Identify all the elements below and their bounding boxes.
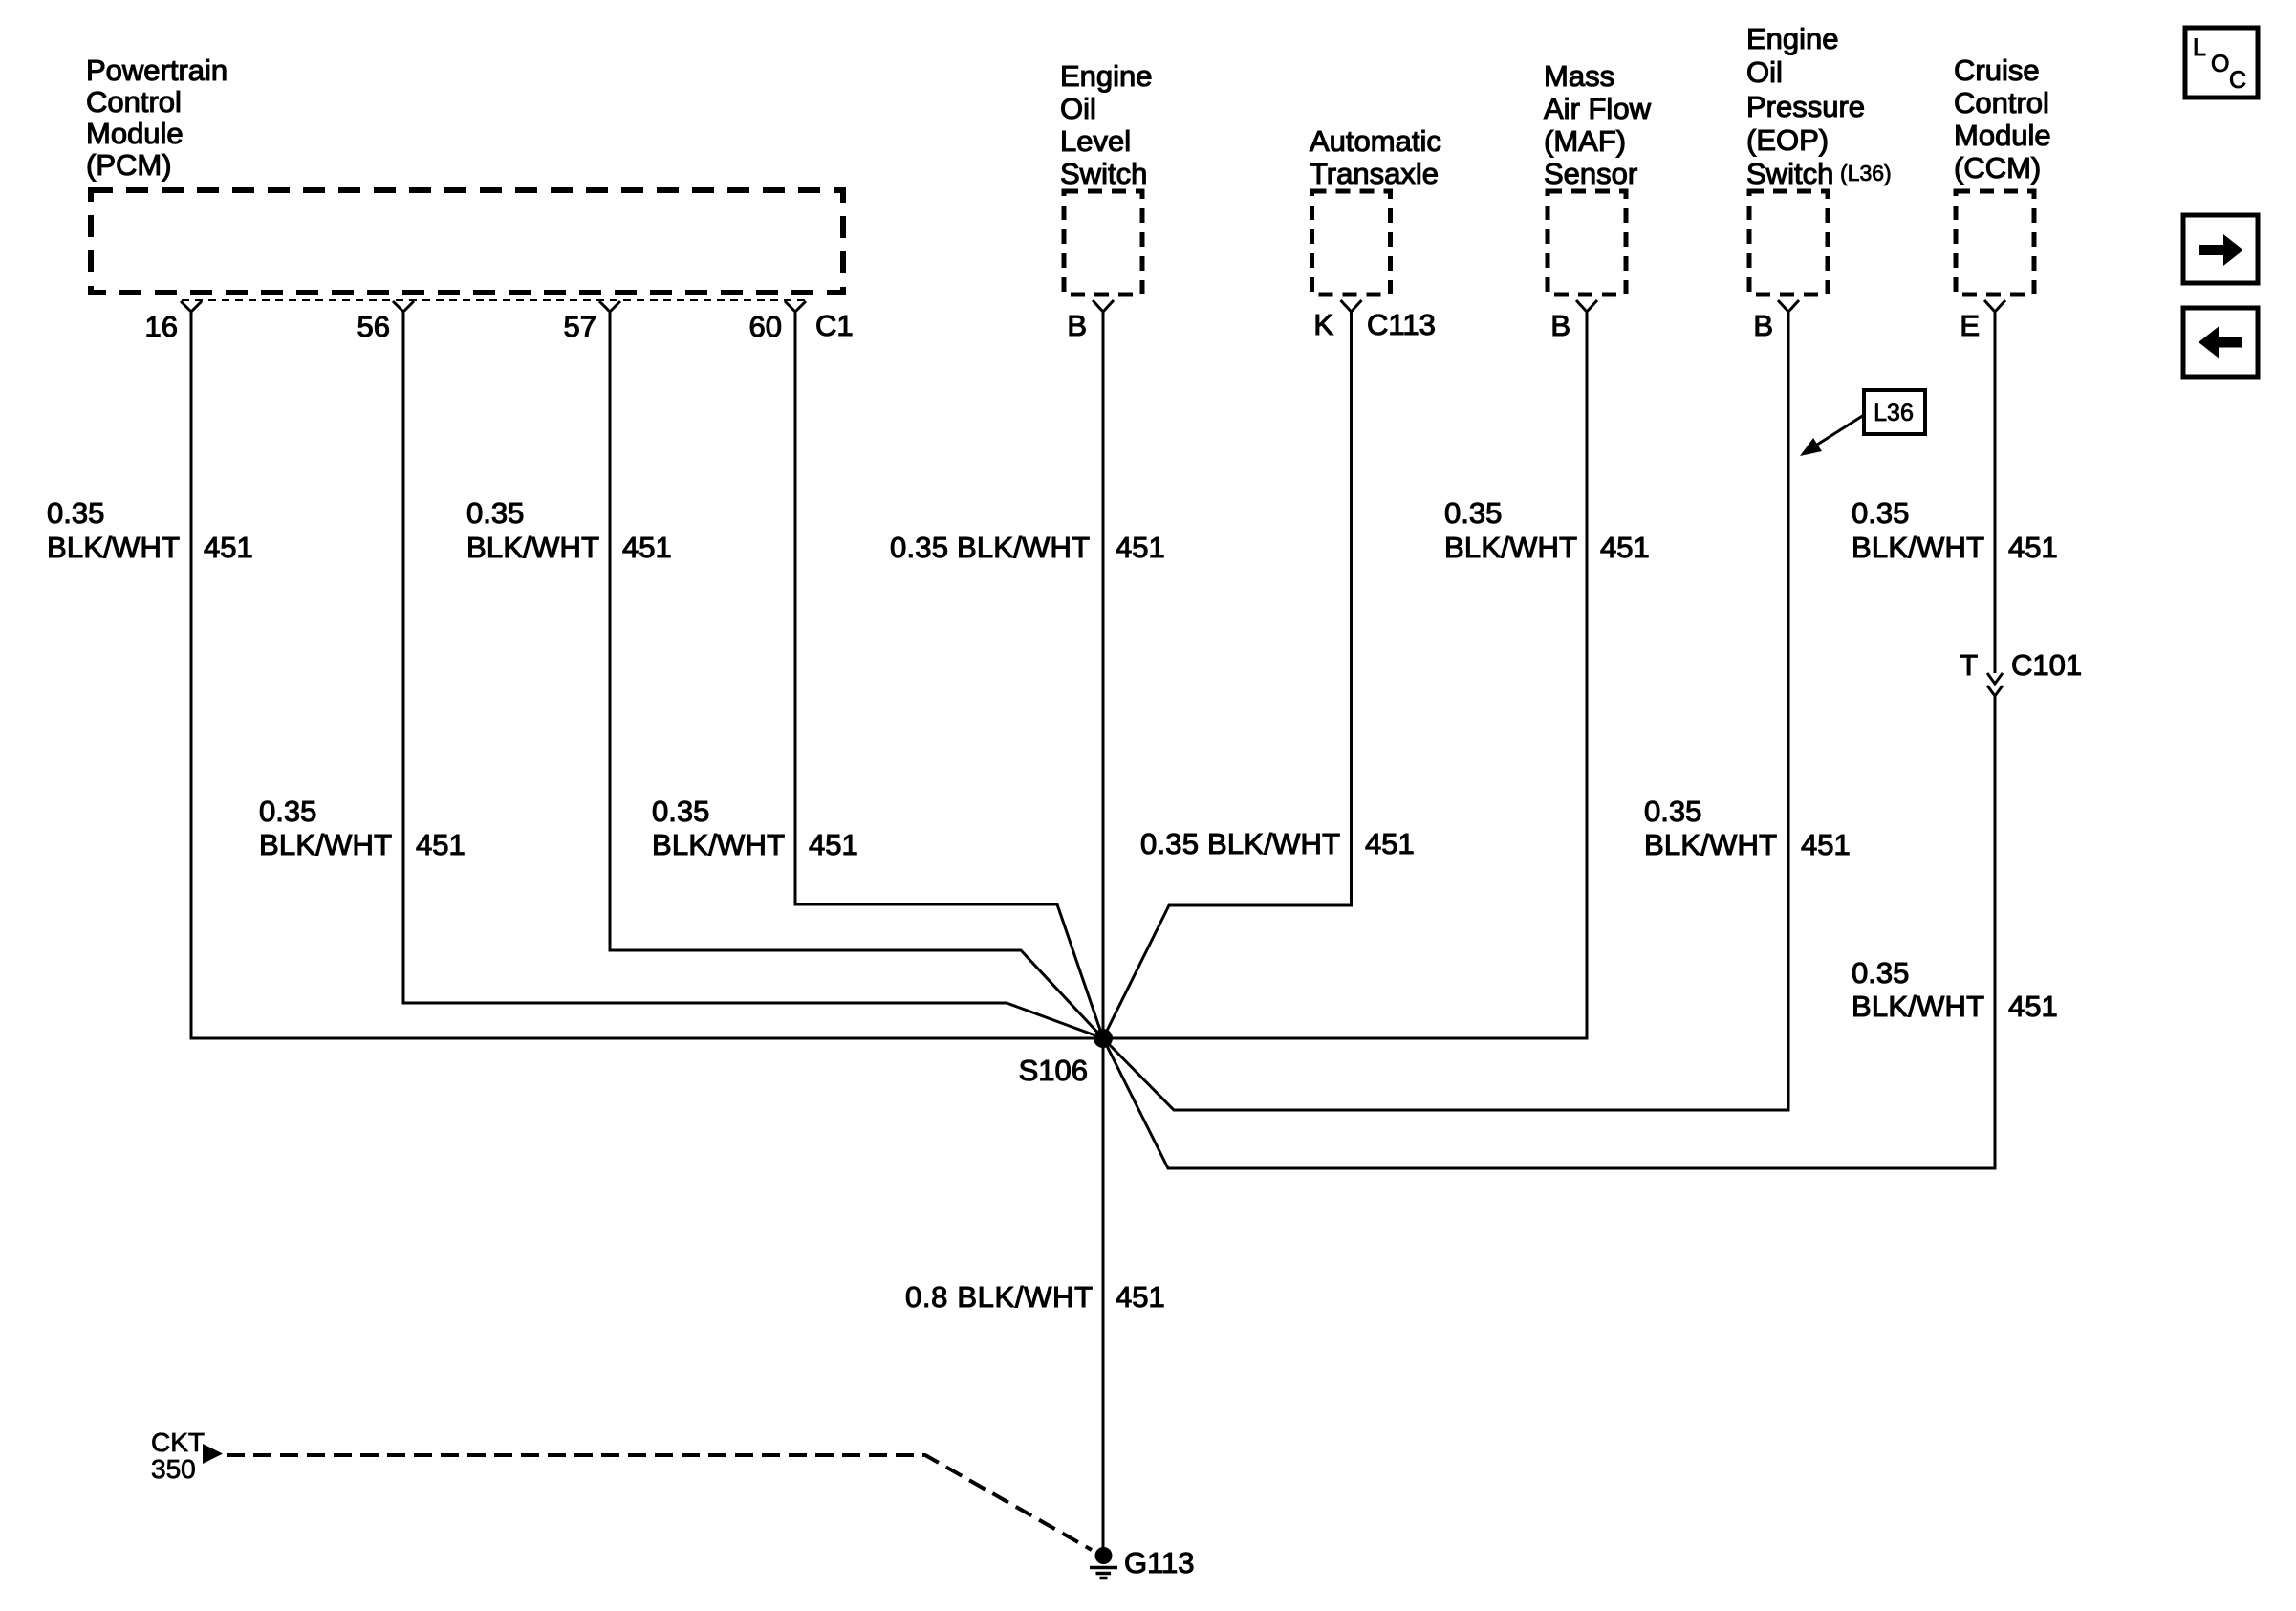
- svg-text:B: B: [1067, 309, 1087, 342]
- wire oil level switch to S106 and ground: [1102, 312, 1105, 1556]
- pin 57: [599, 301, 620, 312]
- Mass Air Flow Sensor label: [1544, 59, 1652, 190]
- svg-text:Level: Level: [1060, 124, 1131, 158]
- svg-text:B: B: [1753, 309, 1773, 342]
- svg-text:16: 16: [145, 310, 178, 343]
- svg-text:Module: Module: [86, 117, 184, 150]
- C1 connector strip (thin dashed line): [182, 299, 807, 301]
- CCM dashed box: [1956, 191, 2034, 294]
- svg-text:G113: G113: [1124, 1546, 1195, 1579]
- svg-text:0.35: 0.35: [466, 496, 524, 530]
- pin B (MAF): [1576, 300, 1597, 312]
- svg-text:BLK/WHT: BLK/WHT: [47, 531, 180, 564]
- pin B (EOP): [1778, 300, 1799, 312]
- svg-text:Engine: Engine: [1746, 22, 1839, 55]
- svg-text:451: 451: [1365, 827, 1415, 860]
- svg-text:0.35: 0.35: [47, 496, 104, 530]
- connector C101 (in-line, double chevron): [1987, 673, 2003, 696]
- svg-text:(CCM): (CCM): [1954, 151, 2041, 185]
- svg-text:(L36): (L36): [1840, 161, 1892, 185]
- svg-text:Transaxle: Transaxle: [1310, 157, 1439, 190]
- svg-text:0.35 BLK/WHT: 0.35 BLK/WHT: [890, 531, 1090, 564]
- svg-text:C113: C113: [1367, 308, 1436, 341]
- svg-text:451: 451: [1116, 1280, 1165, 1314]
- wire transaxle to S106: [1103, 312, 1352, 1038]
- svg-text:C1: C1: [815, 309, 854, 342]
- svg-text:0.35 BLK/WHT: 0.35 BLK/WHT: [1140, 827, 1340, 860]
- svg-text:451: 451: [2008, 531, 2058, 564]
- ground G113: [1090, 1546, 1195, 1579]
- wire pin56 to S106: [403, 312, 1103, 1038]
- svg-text:Oil: Oil: [1746, 55, 1783, 89]
- svg-text:BLK/WHT: BLK/WHT: [1852, 531, 1984, 564]
- svg-text:BLK/WHT: BLK/WHT: [1852, 990, 1984, 1023]
- svg-text:Engine: Engine: [1060, 59, 1153, 93]
- svg-text:BLK/WHT: BLK/WHT: [652, 828, 785, 861]
- pin K / connector C113: [1341, 300, 1362, 312]
- svg-text:0.35: 0.35: [652, 795, 709, 828]
- wire CCM upper segment: [1994, 312, 1997, 673]
- wire pin57 to S106: [610, 312, 1103, 1038]
- pin B (oil level switch): [1093, 300, 1114, 312]
- EOP switch dashed box: [1749, 191, 1828, 294]
- Automatic Transaxle dashed box: [1312, 191, 1391, 294]
- svg-text:Module: Module: [1954, 119, 2051, 152]
- CKT 350 reference: [151, 1427, 1092, 1550]
- wire label 0.8 BLK/WHT 451 (ground leg): [905, 1280, 1165, 1314]
- svg-text:Automatic: Automatic: [1310, 124, 1441, 158]
- svg-text:Powertrain: Powertrain: [86, 54, 227, 87]
- svg-text:60: 60: [749, 310, 782, 343]
- wire label 0.35 BLK/WHT 451 (transaxle): [1140, 827, 1415, 860]
- splice S106: [1094, 1029, 1113, 1048]
- L36 callout box: [1800, 390, 1925, 456]
- svg-text:BLK/WHT: BLK/WHT: [1444, 531, 1577, 564]
- svg-text:Pressure: Pressure: [1746, 90, 1865, 123]
- svg-text:C101: C101: [2011, 648, 2082, 682]
- svg-text:L36: L36: [1874, 400, 1914, 426]
- svg-text:(EOP): (EOP): [1746, 123, 1829, 157]
- svg-text:Control: Control: [86, 85, 182, 119]
- svg-text:451: 451: [204, 531, 253, 564]
- wire MAF to S106: [1103, 312, 1587, 1038]
- svg-text:L: L: [2193, 34, 2206, 61]
- svg-text:E: E: [1960, 309, 1980, 342]
- MAF sensor dashed box: [1548, 191, 1626, 294]
- svg-text:350: 350: [151, 1454, 196, 1484]
- svg-text:451: 451: [2008, 990, 2058, 1023]
- pin E (CCM): [1984, 300, 2005, 312]
- svg-text:0.35: 0.35: [1852, 956, 1909, 990]
- svg-text:(MAF): (MAF): [1544, 124, 1626, 158]
- svg-text:0.35: 0.35: [1644, 795, 1701, 828]
- wire label 0.35 BLK/WHT 451 (pin 57): [466, 496, 672, 564]
- svg-text:Oil: Oil: [1060, 92, 1096, 125]
- wire label 0.35 BLK/WHT 451 (pin 16): [47, 496, 253, 564]
- svg-text:Switch: Switch: [1060, 157, 1147, 190]
- wire label 0.35 BLK/WHT 451 (pin 56): [259, 795, 466, 861]
- svg-text:C: C: [2229, 67, 2246, 94]
- svg-text:BLK/WHT: BLK/WHT: [466, 531, 599, 564]
- svg-text:Switch: Switch: [1746, 157, 1833, 190]
- svg-text:451: 451: [622, 531, 672, 564]
- svg-text:Control: Control: [1954, 86, 2049, 120]
- right arrow legend box: [2183, 215, 2258, 283]
- pin 56: [393, 301, 414, 312]
- svg-text:451: 451: [809, 828, 858, 861]
- wire label 0.35 BLK/WHT 451 (CCM lower): [1852, 956, 2058, 1023]
- svg-text:Sensor: Sensor: [1544, 157, 1637, 190]
- wire label 0.35 BLK/WHT 451 (MAF): [1444, 496, 1650, 564]
- svg-text:BLK/WHT: BLK/WHT: [1644, 828, 1777, 861]
- wire pin16 to S106: [191, 312, 1103, 1038]
- pin 16: [181, 301, 202, 312]
- Engine Oil Level Switch dashed box: [1064, 191, 1142, 294]
- Engine Oil Level Switch label: [1060, 59, 1153, 190]
- wire pin60 to S106: [795, 312, 1103, 1038]
- PCM module label: [86, 54, 227, 182]
- svg-text:56: 56: [357, 310, 390, 343]
- wire EOP to S106: [1103, 312, 1788, 1110]
- svg-text:451: 451: [416, 828, 466, 861]
- left arrow legend box: [2183, 308, 2258, 377]
- wire label 0.35 BLK/WHT 451 (CCM upper): [1852, 496, 2058, 564]
- svg-text:(PCM): (PCM): [86, 148, 172, 182]
- wire CCM lower segment to S106: [1103, 695, 1995, 1168]
- svg-text:Mass: Mass: [1544, 59, 1614, 93]
- Engine Oil Pressure Switch label: [1746, 22, 1892, 190]
- LOC legend box: [2185, 28, 2258, 98]
- wire label 0.35 BLK/WHT 451 (pin 60): [652, 795, 858, 861]
- svg-text:Air Flow: Air Flow: [1544, 92, 1652, 125]
- wire label 0.35 BLK/WHT 451 (EOP): [1644, 795, 1851, 861]
- svg-text:CKT: CKT: [151, 1427, 205, 1457]
- svg-text:0.35: 0.35: [259, 795, 316, 828]
- PCM dashed box: [91, 190, 843, 293]
- svg-text:57: 57: [564, 310, 596, 343]
- svg-text:B: B: [1550, 309, 1570, 342]
- svg-text:0.8 BLK/WHT: 0.8 BLK/WHT: [905, 1280, 1093, 1314]
- svg-text:451: 451: [1116, 531, 1165, 564]
- svg-text:451: 451: [1600, 531, 1650, 564]
- wire label 0.35 BLK/WHT 451 (oil level switch): [890, 531, 1165, 564]
- svg-text:0.35: 0.35: [1444, 496, 1502, 530]
- Cruise Control Module label: [1954, 54, 2051, 185]
- svg-text:S106: S106: [1019, 1054, 1088, 1087]
- svg-text:K: K: [1313, 308, 1333, 341]
- Automatic Transaxle label: [1310, 124, 1441, 190]
- pin 60: [785, 301, 806, 312]
- svg-text:Cruise: Cruise: [1954, 54, 2040, 87]
- svg-text:O: O: [2211, 51, 2229, 77]
- svg-text:T: T: [1960, 648, 1978, 682]
- svg-text:BLK/WHT: BLK/WHT: [259, 828, 392, 861]
- svg-text:0.35: 0.35: [1852, 496, 1909, 530]
- svg-text:451: 451: [1801, 828, 1851, 861]
